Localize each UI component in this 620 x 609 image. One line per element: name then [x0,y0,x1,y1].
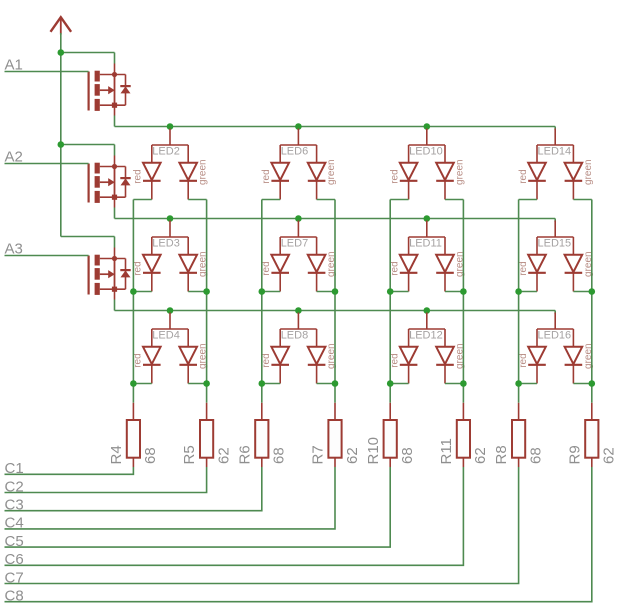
junction on cathode column [589,380,596,387]
label LED8 [281,329,309,341]
junction on cathode column [460,288,467,295]
net label A2 [5,148,23,165]
wire: LED10 red cathode jog [390,199,408,201]
wire: LED12 green cathode jog [445,383,463,385]
wire: red cathode column (group 3) [389,200,391,403]
wire: LED11 green cathode jog [445,291,463,293]
svg-text:green: green [454,159,465,185]
LED pair LED11 (dual red/green) [400,221,454,292]
svg-text:R8: R8 [493,445,510,464]
junction on anode bus [424,215,431,222]
label LED11 [409,237,442,249]
wire: supply vertical rail [60,33,62,237]
svg-text:LED10: LED10 [409,145,443,157]
svg-text:red: red [261,169,272,183]
label R9 name [566,445,583,464]
svg-text:green: green [583,159,594,185]
LED pair LED16 (dual red/green) [528,313,582,384]
wire: net C7 [5,467,519,584]
label red (LED10) [389,169,400,183]
junction on anode bus [295,307,302,314]
junction on cathode column [515,380,522,387]
svg-text:68: 68 [271,447,288,464]
svg-text:68: 68 [142,447,159,464]
LED pair LED7 (dual red/green) [271,221,325,292]
label R5 value 62 [215,447,232,464]
junction on supply rail [58,49,65,56]
junction on cathode column [130,380,137,387]
label R9 value 62 [601,447,618,464]
label red (LED4) [133,353,144,367]
label R8 value 68 [527,447,544,464]
resistor R9 (62) [585,403,598,467]
label green (LED8) [326,343,337,369]
LED pair LED4 (dual red/green) [143,313,197,384]
wire: LED14 green cathode jog [573,199,591,201]
junction on anode bus [167,307,174,314]
label R6 name [236,445,253,464]
wire: net A1 to gate [5,71,89,73]
wire: LED10 green cathode jog [445,199,463,201]
svg-text:red: red [389,169,400,183]
svg-text:LED12: LED12 [409,329,443,341]
transistor Q2 p-channel MOSFET (row A2) [89,156,131,208]
resistor R8 (68) [512,403,525,467]
svg-text:68: 68 [527,447,544,464]
junction on cathode column [332,380,339,387]
label green (LED2) [198,159,209,185]
svg-text:LED11: LED11 [409,237,442,249]
LED pair LED2 (dual red/green) [143,129,197,200]
label red (LED12) [389,353,400,367]
wire: LED8 green cathode jog [317,383,335,385]
svg-text:62: 62 [472,447,489,464]
svg-text:green: green [198,159,209,185]
label red (LED7) [261,261,272,275]
wire: Q3 source to row bus [114,300,116,311]
wire: green cathode column (group 2) [334,200,336,403]
wire: LED4 red cathode jog [133,383,151,385]
net label C2 [5,478,24,495]
label red (LED15) [518,261,529,275]
label LED3 [152,237,180,249]
label R10 value 68 [399,447,416,464]
wire: LED6 red cathode jog [262,199,280,201]
net label C4 [5,515,24,532]
wire: LED14 red cathode jog [519,199,537,201]
wire: green cathode column (group 1) [206,200,208,403]
svg-text:LED8: LED8 [281,329,309,341]
svg-text:red: red [261,353,272,367]
wire: Q1 source to row bus [114,116,116,127]
label green (LED7) [326,251,337,277]
svg-text:LED2: LED2 [152,145,180,157]
label red (LED11) [389,261,400,275]
LED pair LED14 (dual red/green) [528,129,582,200]
wire: supply tap to transistor row A3 [61,237,115,248]
junction on anode bus [295,215,302,222]
svg-text:red: red [133,169,144,183]
wire: net C5 [5,467,391,547]
wire: LED8 red cathode jog [262,383,280,385]
svg-text:red: red [518,261,529,275]
svg-text:C4: C4 [5,515,24,532]
junction on cathode column [203,380,210,387]
label red (LED3) [133,261,144,275]
svg-text:red: red [261,261,272,275]
junction on cathode column [387,288,394,295]
wire: LED4 green cathode jog [188,383,206,385]
wire: net A2 to gate [5,163,89,165]
resistor R6 (68) [255,403,268,467]
junction on cathode column [515,288,522,295]
svg-text:green: green [326,159,337,185]
junction on cathode column [259,288,266,295]
wire: supply tap to transistor row A1 [61,53,115,64]
LED pair LED8 (dual red/green) [271,313,325,384]
label LED16 [538,329,572,341]
wire: LED16 green cathode jog [573,383,591,385]
net label C3 [5,497,24,514]
wire: LED11 red cathode jog [390,291,408,293]
svg-text:62: 62 [344,447,361,464]
svg-text:LED15: LED15 [538,237,572,249]
label R4 value 68 [142,447,159,464]
wire: net C4 [5,467,336,529]
wire: row 2 anode bus [115,219,556,223]
label LED4 [152,329,180,341]
wire: red cathode column (group 1) [132,200,134,403]
junction on anode bus [167,215,174,222]
net label C5 [5,533,24,550]
wire: LED6 green cathode jog [317,199,335,201]
label R11 name [438,438,455,464]
resistor R11 (62) [457,403,470,467]
label red (LED16) [518,353,529,367]
svg-text:red: red [133,261,144,275]
wire: net C3 [5,467,262,511]
svg-text:R7: R7 [310,445,327,464]
svg-text:red: red [133,353,144,367]
wire: LED12 red cathode jog [390,383,408,385]
svg-text:LED16: LED16 [538,329,572,341]
svg-text:C1: C1 [5,460,24,477]
svg-text:C8: C8 [5,588,24,605]
resistor R4 (68) [127,403,140,467]
LED pair LED15 (dual red/green) [528,221,582,292]
wire: row 1 anode bus [115,127,556,131]
net label C7 [5,569,24,586]
label LED14 [538,145,572,157]
wire: green cathode column (group 3) [462,200,464,403]
wire: net C8 [5,467,592,602]
label red (LED2) [133,169,144,183]
svg-text:LED7: LED7 [281,237,309,249]
svg-text:62: 62 [215,447,232,464]
svg-text:R9: R9 [566,445,583,464]
junction on cathode column [589,288,596,295]
label R7 value 62 [344,447,361,464]
label R4 name [108,445,125,464]
svg-text:R11: R11 [438,438,455,464]
svg-text:LED3: LED3 [152,237,180,249]
junction on cathode column [259,380,266,387]
label LED7 [281,237,309,249]
svg-text:red: red [389,261,400,275]
label green (LED14) [583,159,594,185]
label green (LED12) [454,343,465,369]
net label C6 [5,551,24,568]
wire: LED2 red cathode jog [133,199,151,201]
wire: red cathode column (group 4) [518,200,520,403]
wire: net C2 [5,467,207,493]
svg-text:red: red [518,353,529,367]
LED pair LED3 (dual red/green) [143,221,197,292]
svg-text:LED14: LED14 [538,145,572,157]
svg-text:R6: R6 [236,445,253,464]
net label C8 [5,588,24,605]
label R8 name [493,445,510,464]
junction on anode bus [424,307,431,314]
svg-text:red: red [389,353,400,367]
junction on anode bus [167,123,174,130]
junction on anode bus [424,123,431,130]
wire: LED7 red cathode jog [262,291,280,293]
label R6 value 68 [271,447,288,464]
svg-text:C7: C7 [5,569,24,586]
label LED6 [281,145,309,157]
label LED2 [152,145,180,157]
net label C1 [5,460,24,477]
wire: net C6 [5,467,464,565]
label LED12 [409,329,443,341]
net label A3 [5,240,23,257]
wire: LED2 green cathode jog [188,199,206,201]
wire: LED15 green cathode jog [573,291,591,293]
label green (LED6) [326,159,337,185]
svg-text:R10: R10 [365,437,382,465]
wire: net A3 to gate [5,255,89,257]
transistor Q3 p-channel MOSFET (row A3) [89,248,131,300]
wire: net C1 [5,467,134,474]
label green (LED4) [198,343,209,369]
label green (LED16) [583,343,594,369]
wire: red cathode column (group 2) [261,200,263,403]
svg-text:68: 68 [399,447,416,464]
LED pair LED6 (dual red/green) [271,129,325,200]
svg-text:LED6: LED6 [281,145,309,157]
net label A1 [5,56,23,73]
junction on cathode column [130,288,137,295]
wire: LED3 green cathode jog [188,291,206,293]
resistor R10 (68) [384,403,397,467]
junction on supply rail [58,141,65,148]
label green (LED11) [454,251,465,277]
transistor Q1 p-channel MOSFET (row A1) [89,64,131,116]
LED pair LED10 (dual red/green) [400,129,454,200]
svg-text:C3: C3 [5,497,24,514]
wire: green cathode column (group 4) [591,200,593,403]
wire: LED3 red cathode jog [133,291,151,293]
label R5 name [181,445,198,464]
label red (LED8) [261,353,272,367]
svg-text:red: red [518,169,529,183]
label LED10 [409,145,443,157]
label LED15 [538,237,572,249]
label green (LED3) [198,251,209,277]
svg-text:C5: C5 [5,533,24,550]
label green (LED10) [454,159,465,185]
junction on cathode column [203,288,210,295]
LED pair LED12 (dual red/green) [400,313,454,384]
wire: LED15 red cathode jog [519,291,537,293]
wire: LED16 red cathode jog [519,383,537,385]
wire: supply tap to transistor row A2 [61,145,115,156]
label R7 name [310,445,327,464]
wire: Q2 source to row bus [114,208,116,219]
svg-text:C2: C2 [5,478,24,495]
resistor R5 (62) [200,403,213,467]
label red (LED6) [261,169,272,183]
svg-text:R4: R4 [108,445,125,464]
wire: LED7 green cathode jog [317,291,335,293]
svg-text:R5: R5 [181,445,198,464]
svg-text:LED4: LED4 [152,329,180,341]
junction on cathode column [387,380,394,387]
power supply arrow (VCC) [51,17,72,34]
junction on cathode column [332,288,339,295]
label R10 name [365,437,382,465]
svg-text:62: 62 [601,447,618,464]
junction on cathode column [460,380,467,387]
junction on anode bus [295,123,302,130]
resistor R7 (62) [328,403,341,467]
label R11 value 62 [472,447,489,464]
label green (LED15) [583,251,594,277]
wire: row 3 anode bus [115,311,556,315]
svg-text:C6: C6 [5,551,24,568]
label red (LED14) [518,169,529,183]
